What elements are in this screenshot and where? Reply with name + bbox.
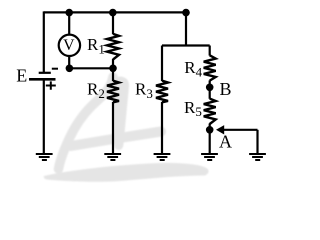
svg-text:R4: R4 — [184, 58, 202, 79]
svg-text:R1: R1 — [87, 35, 105, 56]
svg-text:V: V — [63, 37, 75, 54]
svg-text:R5: R5 — [184, 98, 202, 119]
svg-text:E: E — [16, 65, 27, 85]
svg-text:R2: R2 — [87, 80, 105, 101]
svg-text:R3: R3 — [135, 80, 153, 101]
svg-text:B: B — [220, 79, 232, 99]
svg-text:A: A — [219, 132, 232, 152]
